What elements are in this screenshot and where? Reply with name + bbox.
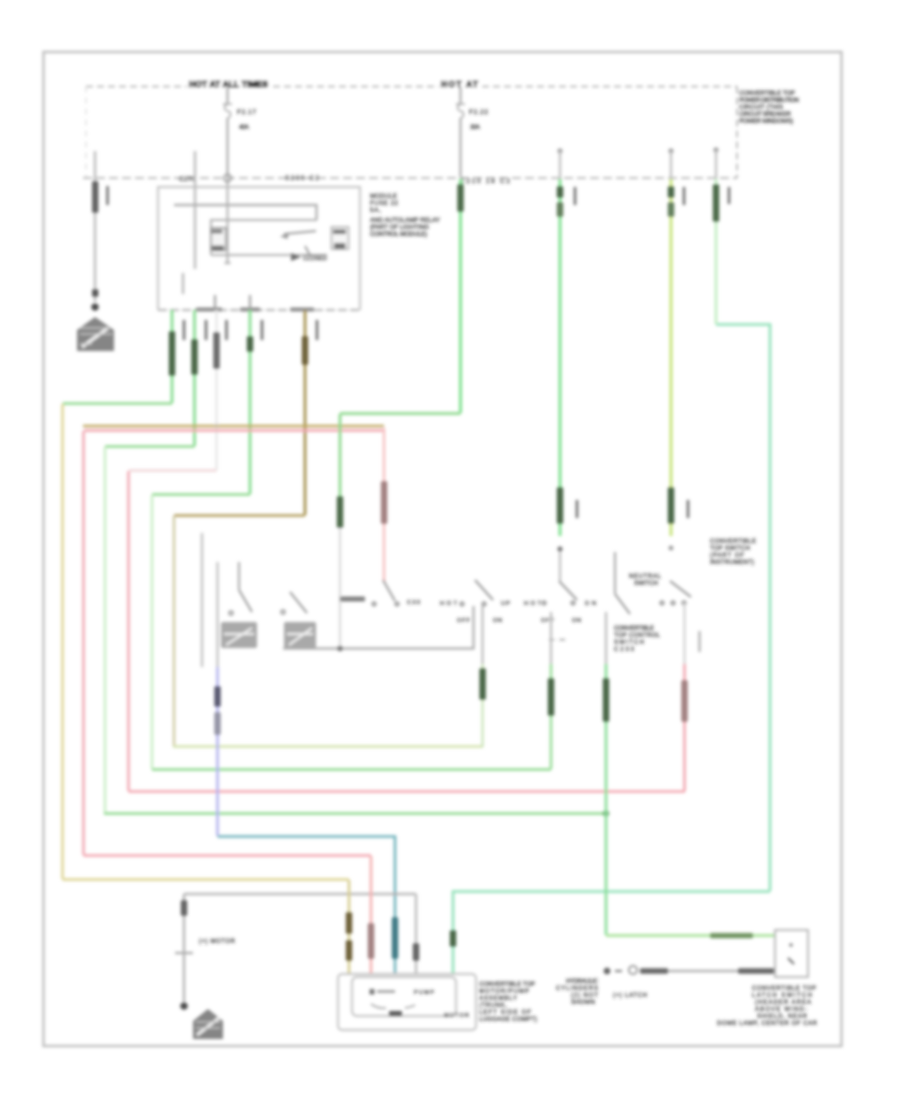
switch C terminal b bbox=[671, 601, 675, 605]
pin tick 1 under relay bbox=[183, 320, 186, 340]
switch B stem from dot bbox=[559, 552, 561, 581]
neutral switch terminal a bbox=[372, 602, 376, 606]
switch A blade bbox=[475, 580, 493, 600]
relay aux box with pins bbox=[332, 227, 349, 249]
wire B LG below bus bbox=[670, 179, 673, 536]
wire label RED bbox=[381, 481, 387, 524]
pin tick 5 under relay bbox=[316, 320, 319, 340]
pin stub lower a bbox=[214, 295, 216, 309]
svg-text:SWITCH: SWITCH bbox=[614, 640, 644, 646]
wire fuse F1 inside box bbox=[226, 177, 229, 264]
long vertical rail left bbox=[201, 533, 203, 667]
wire YEL strand of band bbox=[83, 425, 384, 427]
tick beside wire 95r bbox=[574, 187, 577, 205]
dark text bar left of neutral switch bbox=[340, 597, 365, 602]
arrow marker at relay bottom bbox=[291, 253, 301, 261]
switch mid blade bbox=[615, 594, 630, 614]
connector circle at bus junction bbox=[224, 174, 232, 182]
svg-text:AND AUTOLAMP RELAY: AND AUTOLAMP RELAY bbox=[370, 217, 440, 224]
svg-text:ON: ON bbox=[572, 618, 581, 624]
wire BLU below rail bbox=[216, 667, 219, 836]
text block above mid switch bbox=[629, 574, 662, 587]
latch box inner mark bbox=[788, 958, 794, 964]
svg-text:MOTOR/PUMP: MOTOR/PUMP bbox=[479, 989, 529, 995]
wire fuse F2 upper lead bbox=[459, 87, 461, 104]
wire A connector dot bbox=[557, 546, 562, 551]
text block circuit breaker top right bbox=[739, 90, 799, 125]
svg-text:CONTROL MODULE): CONTROL MODULE) bbox=[370, 231, 427, 238]
svg-text:OFF: OFF bbox=[541, 618, 555, 624]
svg-text:40A: 40A bbox=[239, 124, 250, 131]
text block center bottom bbox=[556, 979, 599, 1006]
fuse F1 symbol bbox=[223, 104, 232, 118]
svg-text:HOT: HOT bbox=[440, 601, 457, 607]
wire RED strand of band bbox=[84, 429, 384, 431]
wire C gray above bus bbox=[715, 150, 717, 179]
wire A LG below bus bbox=[559, 179, 562, 536]
svg-text:ASSEMBLY: ASSEMBLY bbox=[479, 996, 517, 1002]
svg-text:ON: ON bbox=[493, 618, 502, 624]
connector circle latch bbox=[629, 966, 637, 974]
text block below mid switch bbox=[614, 626, 661, 653]
fuse box dashed top edge bbox=[86, 86, 737, 88]
neutral switch terminal b bbox=[395, 602, 399, 606]
G-RELAYBOX bbox=[158, 151, 440, 312]
svg-text:CONVERTIBLE TOP: CONVERTIBLE TOP bbox=[479, 982, 535, 988]
svg-text:NEUTRAL: NEUTRAL bbox=[629, 574, 662, 580]
wire GRN from switch mid leg bbox=[605, 612, 607, 664]
text block bottom right bbox=[717, 986, 818, 1027]
wire fuse F1 lower lead bbox=[226, 118, 228, 177]
svg-text:CONVERTIBLE TOP: CONVERTIBLE TOP bbox=[752, 986, 816, 992]
motor label dark bbox=[389, 1011, 402, 1016]
wire GRN pin4 horizontal run bbox=[152, 493, 250, 496]
wire B connector dot bbox=[669, 546, 674, 551]
svg-text:LUGGAGE COMPT): LUGGAGE COMPT) bbox=[479, 1017, 537, 1023]
wire B label bottom bbox=[668, 487, 674, 524]
svg-text:C270: C270 bbox=[179, 176, 195, 183]
svg-text:LATCH SWITCH: LATCH SWITCH bbox=[752, 993, 812, 999]
svg-text:(+) MOTOR: (+) MOTOR bbox=[199, 939, 236, 945]
internal horizontal link bbox=[174, 205, 317, 220]
svg-text:F2.22: F2.22 bbox=[469, 109, 488, 116]
fuse box dashed left edge bbox=[85, 87, 87, 179]
svg-text:5A,: 5A, bbox=[370, 207, 381, 214]
ground G101 symbol bbox=[77, 317, 114, 351]
wire label BLK on ground wire bbox=[92, 181, 98, 213]
connector dot wire A top bbox=[557, 148, 562, 153]
wire LG from fuse F2 below bus bbox=[459, 179, 462, 413]
svg-text:HYDRAULIC: HYDRAULIC bbox=[566, 979, 599, 985]
switch B terminal a bbox=[542, 601, 546, 605]
ground G202 symbol bbox=[193, 1009, 223, 1039]
wire YEL bottom horizontal run bbox=[63, 878, 350, 881]
svg-text:MODULE: MODULE bbox=[370, 193, 397, 200]
wire RED label bbox=[368, 923, 374, 959]
motor ground wire top run bbox=[184, 893, 416, 895]
svg-text:(HEADER AREA: (HEADER AREA bbox=[755, 1000, 811, 1006]
wire YEL label b bbox=[346, 940, 352, 961]
wire GRN pin2: vertical under relay bbox=[193, 310, 196, 446]
switch mid stem bbox=[614, 552, 616, 594]
wire fuse F2 lower lead bbox=[459, 118, 461, 177]
relay contact blade bbox=[284, 231, 316, 234]
relay coil small box bbox=[211, 228, 226, 250]
wire YEL label a bbox=[346, 912, 352, 934]
wire PNK lower horizontal run bbox=[129, 790, 686, 793]
relay blade arrowhead bbox=[280, 233, 289, 240]
svg-text:DOME LAMP, CENTER OF CAR: DOME LAMP, CENTER OF CAR bbox=[717, 1021, 818, 1027]
wire label on switch B leg bbox=[548, 678, 554, 716]
G-TOPSECTION bbox=[83, 77, 799, 185]
tick beside wire A bottom bbox=[576, 500, 579, 518]
G-GROUNDLEFT bbox=[77, 151, 114, 351]
switch S2 terminal dot bbox=[281, 610, 285, 614]
wire OLV horizontal run bbox=[174, 514, 305, 517]
switch S1 terminal bbox=[229, 611, 233, 615]
svg-text:HOT: HOT bbox=[524, 601, 541, 607]
relay module box bbox=[158, 187, 360, 310]
junction dot node S at common line bbox=[337, 646, 343, 652]
junction dot S note bbox=[603, 810, 609, 816]
motor terminal marks bbox=[370, 989, 375, 995]
connector dot wire C top bbox=[713, 147, 718, 152]
svg-text:(TRUNK,: (TRUNK, bbox=[479, 1003, 507, 1009]
wire label BLK bottom bbox=[181, 900, 187, 916]
internal stub pin bbox=[182, 273, 184, 294]
wire PNK bottom horizontal band bbox=[84, 854, 372, 857]
wire A label top bbox=[557, 186, 563, 198]
latch box inner dot bbox=[789, 943, 792, 946]
fuse box dashed right edge bbox=[736, 87, 738, 179]
wire LG-OLV lower horizontal run 5 bbox=[173, 745, 483, 747]
label HOT AT ALL TIMES left bbox=[187, 77, 271, 88]
terminal dot bottom ground bbox=[180, 1002, 188, 1010]
switch S1 stem bbox=[238, 562, 240, 590]
wire A gray above bus bbox=[559, 151, 561, 179]
latch wire line bbox=[640, 970, 775, 972]
fuse box dashed bottom edge / bus bbox=[83, 177, 737, 179]
tick beside wire B top bbox=[683, 187, 686, 205]
motor arc bbox=[371, 1004, 415, 1008]
svg-text:PUMP: PUMP bbox=[414, 990, 434, 996]
G-UNDERBOX bbox=[63, 310, 686, 880]
wire label on mid leg bbox=[603, 678, 609, 722]
switch C terminal c bbox=[682, 601, 686, 605]
switch S1 blade bbox=[239, 590, 252, 612]
motor box outer bbox=[338, 974, 476, 1030]
switch B blade bbox=[559, 581, 577, 600]
wire PNK left vertical band bbox=[82, 431, 85, 855]
connector cross tick bbox=[175, 952, 193, 954]
wire PNK left vertical 3 bbox=[127, 471, 130, 791]
wire RED into motor bbox=[370, 856, 373, 973]
G-SWITCHES bbox=[202, 533, 756, 973]
terminal dot of ground wire bbox=[91, 303, 99, 311]
tick right of switch C bbox=[698, 631, 700, 652]
wire RED vertical to switch bbox=[383, 428, 386, 582]
svg-text:C33: C33 bbox=[407, 600, 420, 606]
wire C label at motor bbox=[450, 930, 456, 947]
wire LG F2 horizontal jog bbox=[340, 412, 461, 415]
junction dot at latch line bbox=[604, 968, 611, 975]
component label right of relay box bbox=[370, 193, 440, 238]
svg-text:CLOSED: CLOSED bbox=[303, 256, 328, 262]
wire label GRY bbox=[413, 943, 419, 961]
svg-text:OFF: OFF bbox=[457, 618, 471, 624]
wire LG pin1: vertical under relay bbox=[171, 310, 174, 403]
wire GRN from switch B leg bbox=[550, 612, 552, 664]
svg-text:CIRCUIT (THIS: CIRCUIT (THIS bbox=[739, 104, 783, 111]
wire label lower BLK bbox=[92, 289, 98, 297]
wire label on GRN pin2 bbox=[191, 339, 197, 375]
connector dot wire B top bbox=[668, 148, 673, 153]
switch C blade bbox=[670, 581, 691, 597]
wire TEAL run to motor bbox=[218, 837, 396, 974]
wire to ground G101 bbox=[94, 151, 97, 302]
svg-text:(PART OF LIGHTING: (PART OF LIGHTING bbox=[370, 224, 429, 231]
wire label on green run bbox=[710, 933, 753, 938]
wire fuse F1 upper lead bbox=[226, 87, 228, 104]
wire C LG below bus with label bbox=[715, 179, 718, 324]
latch wire label b bbox=[738, 968, 775, 973]
svg-text:SWITCH: SWITCH bbox=[634, 581, 658, 587]
tick beside wire B bottom bbox=[687, 500, 690, 518]
wire label on switch A leg bbox=[479, 668, 485, 700]
svg-text:POWER DISTRIBUTION: POWER DISTRIBUTION bbox=[739, 97, 799, 104]
wire LG left vertical 4 bbox=[151, 495, 153, 769]
wire label BLU bbox=[214, 686, 220, 707]
svg-text:SHIELD, NEAR: SHIELD, NEAR bbox=[757, 1014, 808, 1020]
switch A terminal b bbox=[482, 602, 486, 606]
wire LG lower horizontal run 4 bbox=[152, 768, 551, 771]
relay throw diagonal bbox=[305, 246, 311, 257]
switch C terminal a bbox=[660, 601, 664, 605]
wire B label top bbox=[668, 186, 674, 198]
svg-text:30A: 30A bbox=[470, 124, 481, 131]
wire LG from switch A leg bbox=[482, 606, 484, 664]
motor box inner bbox=[352, 977, 456, 1016]
wire label on F2 wire bbox=[457, 184, 463, 212]
relay inner frame bbox=[211, 220, 327, 255]
svg-text:C210 18 C2: C210 18 C2 bbox=[460, 178, 510, 185]
wire GRN pin4: vertical under relay bbox=[249, 310, 252, 494]
wire RED from switch C leg bbox=[684, 604, 686, 664]
latch wire label a bbox=[640, 968, 668, 973]
wire YEL left vertical long bbox=[61, 404, 64, 879]
text block right of motor box bbox=[479, 982, 537, 1023]
switch S1 position block bbox=[221, 622, 257, 648]
wire OLV left vertical 5 bbox=[173, 516, 175, 746]
svg-text:ABOVE WIND-: ABOVE WIND- bbox=[755, 1007, 807, 1013]
fuse F2 symbol bbox=[456, 104, 465, 118]
wire LG lower horizontal to junction bbox=[104, 812, 606, 815]
pin stub lower b bbox=[249, 295, 251, 309]
wire label on OLV pin5 bbox=[302, 336, 308, 365]
wire label TEAL at motor bbox=[392, 917, 398, 959]
svg-text:(+) LATCH: (+) LATCH bbox=[613, 993, 647, 999]
tick beside wire C top bbox=[728, 187, 731, 204]
text block convertible top right mid bbox=[710, 539, 756, 566]
wire YEL into motor bbox=[348, 880, 351, 973]
svg-text:POWER WINDOWS): POWER WINDOWS) bbox=[739, 118, 793, 125]
svg-text:(2) NOT: (2) NOT bbox=[571, 993, 598, 999]
wire OLV pin5: vertical under relay bbox=[304, 310, 307, 515]
wire into box pin bbox=[194, 151, 197, 269]
wire BLK continuation to switch line bbox=[339, 528, 341, 648]
svg-text:CONVERTIBLE: CONVERTIBLE bbox=[614, 626, 654, 632]
pin tick 3 under relay bbox=[225, 320, 228, 340]
svg-text:CONVERTIBLE: CONVERTIBLE bbox=[710, 539, 756, 545]
wire LG jog vertical bbox=[339, 414, 342, 496]
label HOT AT ALL TIMES right bbox=[439, 77, 481, 88]
latch switch box bbox=[775, 930, 808, 977]
wire LG pin1 horizontal run bbox=[64, 404, 172, 406]
svg-text:MOTOR: MOTOR bbox=[444, 1013, 469, 1019]
wire label on GRN pin4 bbox=[247, 336, 253, 352]
wire label on LG pin1 bbox=[169, 331, 175, 376]
wire label on WHT pin3 bbox=[213, 332, 219, 369]
motor ground wire left vertical bbox=[183, 894, 185, 1002]
wire WHT horizontal run bbox=[129, 469, 217, 471]
bright green run to latch box bbox=[606, 934, 775, 937]
wire A label bottom bbox=[557, 487, 563, 524]
svg-text:CONVERTIBLE TOP: CONVERTIBLE TOP bbox=[739, 90, 795, 97]
switch A terminal a bbox=[460, 602, 464, 606]
G-BOTTOM bbox=[175, 856, 818, 1039]
svg-text:(PART OF: (PART OF bbox=[710, 553, 744, 559]
wire label BLU second segment bbox=[214, 712, 220, 735]
wire label on switch C leg bbox=[681, 680, 687, 722]
wire WHT pin3: vertical under relay bbox=[215, 310, 218, 470]
G-REDYEL bbox=[83, 426, 387, 856]
switch B terminal b bbox=[571, 601, 575, 605]
vertical rail blue feed bbox=[216, 562, 218, 667]
svg-text:TOP SWITCH: TOP SWITCH bbox=[710, 546, 750, 552]
wire C lower horizontal to motor bbox=[453, 892, 770, 974]
wire label on jog vertical bbox=[337, 496, 343, 528]
wire C label bbox=[713, 184, 719, 222]
switch S2 blade bbox=[290, 592, 307, 613]
svg-text:LEFT SIDE OF: LEFT SIDE OF bbox=[479, 1010, 531, 1016]
wire GRY into motor bbox=[415, 894, 418, 973]
G-RIGHTWIRES bbox=[337, 147, 770, 973]
neutral switch blade bbox=[383, 580, 395, 601]
svg-text:UP: UP bbox=[501, 601, 510, 607]
svg-text:CYLINDERS: CYLINDERS bbox=[556, 986, 598, 992]
svg-text:F2.17: F2.17 bbox=[237, 109, 256, 116]
wire C jog to right edge bbox=[716, 325, 770, 892]
switch S2 position block bbox=[284, 622, 316, 648]
common bottom line of switches bbox=[283, 606, 474, 649]
svg-text:FUSE 22: FUSE 22 bbox=[370, 200, 399, 207]
wire LG left vertical 2 bbox=[104, 447, 106, 813]
pin tick 2 under relay bbox=[205, 320, 208, 340]
svg-text:SHOWN: SHOWN bbox=[571, 1000, 595, 1006]
svg-text:INSTRUMENT): INSTRUMENT) bbox=[710, 560, 754, 566]
wire GRN pin2 horizontal run bbox=[105, 445, 195, 448]
pin tick beside ground wire bbox=[106, 186, 109, 205]
pin tick 4 under relay bbox=[261, 320, 264, 340]
svg-text:TOP CONTROL: TOP CONTROL bbox=[614, 633, 661, 639]
wire B gray above bus bbox=[670, 151, 672, 179]
dash after dot bbox=[615, 970, 622, 972]
svg-text:CIRCUIT BREAKER: CIRCUIT BREAKER bbox=[739, 111, 792, 118]
